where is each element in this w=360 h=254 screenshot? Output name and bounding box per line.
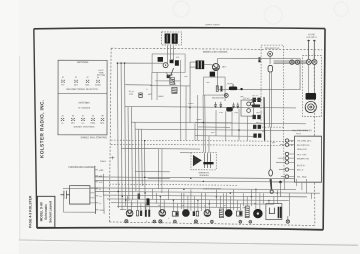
IF can stack 1 <box>251 98 262 102</box>
mid horizontal y148 <box>121 148 200 153</box>
antenna transformer core 2 <box>172 33 178 43</box>
svg-text:ANTENNA: ANTENNA <box>77 61 89 64</box>
svg-text:BROWN +90: BROWN +90 <box>297 158 310 160</box>
tuner coupling blocks <box>170 60 174 64</box>
RF transformer black <box>196 61 205 70</box>
frame border top <box>34 27 325 29</box>
pickup cone <box>193 155 202 166</box>
svg-text:27: 27 <box>62 77 64 79</box>
small trimmer <box>139 93 142 97</box>
svg-text:50,000: 50,000 <box>227 83 233 85</box>
condenser cap symbol <box>60 191 69 199</box>
hatched choke <box>219 209 223 218</box>
svg-text:1ST A.F.: 1ST A.F. <box>243 97 251 100</box>
power pack U <box>269 208 274 214</box>
resistor a <box>216 86 218 92</box>
tuner wires <box>150 60 190 140</box>
speaker plug dashed box <box>261 45 284 127</box>
svg-text:SINGLE DIAL CONTROL: SINGLE DIAL CONTROL <box>80 136 108 139</box>
inner dashed vertical extension <box>283 127 286 182</box>
tube V3 dark <box>182 210 189 217</box>
plug circle <box>268 52 273 57</box>
svg-text:COND.: COND. <box>95 84 102 86</box>
svg-text:27: 27 <box>82 115 84 117</box>
svg-text:DET.: DET. <box>74 84 79 86</box>
small block left of hatch <box>167 75 171 78</box>
svg-text:45: 45 <box>224 205 226 207</box>
terminal legend box <box>294 136 321 182</box>
chassis dashed enclosure <box>109 48 322 225</box>
chart divider <box>58 92 107 94</box>
variable condenser arrow <box>171 68 174 76</box>
model label box <box>37 196 55 227</box>
barrel connector <box>268 65 272 72</box>
phono pickup dashed box <box>191 152 216 170</box>
speaker dashed box <box>303 56 322 117</box>
plug junction squares <box>258 57 260 59</box>
legend leads <box>289 141 295 177</box>
legend terminal circles <box>285 139 288 178</box>
fuse lead <box>270 127 272 169</box>
dial cord diagonal <box>166 72 176 84</box>
ground symbol c <box>194 220 197 223</box>
tube V4 <box>204 210 211 217</box>
svg-text:+45: +45 <box>99 182 102 184</box>
pilot cone <box>270 179 273 190</box>
wire horizontals upper <box>117 63 308 131</box>
A-line wires <box>309 40 315 59</box>
svg-text:JOHN F. RIDER: JOHN F. RIDER <box>205 24 220 26</box>
svg-text:SW: SW <box>272 142 275 144</box>
speaker feed wires <box>309 65 315 93</box>
power pack box <box>266 204 282 220</box>
legend feed stubs <box>276 145 285 177</box>
plug down leads <box>269 57 271 127</box>
svg-text:45: 45 <box>92 115 94 117</box>
svg-text:PWR.: PWR. <box>91 123 96 125</box>
svg-text:CABLE: CABLE <box>100 160 107 163</box>
svg-text:R.F.: R.F. <box>61 84 65 86</box>
svg-text:REC.: REC. <box>100 123 105 125</box>
resistor b <box>220 86 222 92</box>
tuning condenser block <box>158 57 163 62</box>
IF can stack 3 <box>253 125 261 129</box>
socket voltage chart box <box>58 60 107 135</box>
IF unit large box <box>218 59 301 90</box>
ground symbol right <box>286 216 289 223</box>
extra ground symbols row <box>153 220 252 223</box>
svg-text:MILLIAMP SIGNAL SELECTOR: MILLIAMP SIGNAL SELECTOR <box>67 88 99 91</box>
svg-text:MODEL D-90 CHASSIS: MODEL D-90 CHASSIS <box>203 51 228 54</box>
svg-text:24: 24 <box>97 77 99 79</box>
svg-text:YEL-GRN. DET.: YEL-GRN. DET. <box>297 141 312 143</box>
svg-text:DET.: DET. <box>71 123 76 125</box>
mid vertical pair x158-162 <box>158 148 162 193</box>
IF can stack 2 <box>253 115 261 119</box>
svg-text:BLK-RED R.F.: BLK-RED R.F. <box>297 145 310 147</box>
svg-text:24: 24 <box>158 205 160 207</box>
svg-text:+180: +180 <box>99 170 103 172</box>
tuner assembly outline <box>152 54 185 73</box>
detector inner box <box>204 77 226 95</box>
condenser lower leads <box>63 199 95 212</box>
lower segmented condenser <box>172 87 177 93</box>
svg-text:SPEAKER PLUG: SPEAKER PLUG <box>265 47 280 50</box>
svg-text:24: 24 <box>72 115 74 117</box>
cable terminal circles <box>290 60 294 64</box>
heavy wire <box>263 97 266 141</box>
svg-text:2ND I.F.: 2ND I.F. <box>256 112 263 114</box>
page left edge <box>18 56 21 240</box>
socket symbols row 2 <box>61 115 105 124</box>
svg-text:FIELD: FIELD <box>296 133 302 135</box>
svg-text:KOLSTER SPEAKER: KOLSTER SPEAKER <box>292 129 312 132</box>
svg-text:SOCKET VOLTAGES: SOCKET VOLTAGES <box>73 125 95 128</box>
condenser block <box>70 186 90 204</box>
junction dot <box>240 88 242 90</box>
frame border right <box>323 29 325 230</box>
svg-text:+90: +90 <box>99 176 102 178</box>
svg-text:10W: 10W <box>242 207 246 209</box>
svg-text:MAGNETIC: MAGNETIC <box>199 171 210 174</box>
svg-text:P.U.: P.U. <box>262 131 266 133</box>
mid horizontal y171 <box>135 171 170 178</box>
mid dashed line A <box>111 140 316 141</box>
svg-text:TR 1A: TR 1A <box>129 90 135 93</box>
mid horizontal wires <box>195 122 255 136</box>
field coil <box>245 206 249 218</box>
RF transformer leads <box>190 62 212 107</box>
punch hole <box>334 2 348 16</box>
svg-text:Schematic: Schematic <box>44 204 48 220</box>
audio sub-chassis dashed line <box>109 184 238 185</box>
svg-text:Socket Layout: Socket Layout <box>48 200 52 223</box>
svg-text:YEL. GND.: YEL. GND. <box>297 177 307 179</box>
svg-text:2 MEG: 2 MEG <box>188 103 194 105</box>
antenna transformer slit <box>170 34 171 43</box>
antenna transformer dashed can <box>162 32 182 45</box>
grid cap blob <box>210 72 215 77</box>
svg-text:GND: GND <box>99 210 104 212</box>
svg-text:ANTENNA: ANTENNA <box>78 101 90 104</box>
tube V5 dark <box>225 210 232 217</box>
svg-text:27: 27 <box>131 204 133 206</box>
meter circle <box>224 93 228 97</box>
svg-text:27: 27 <box>75 77 77 79</box>
punch hole <box>173 1 189 17</box>
svg-text:27: 27 <box>87 77 89 79</box>
svg-text:I.F. STAGES: I.F. STAGES <box>78 107 91 110</box>
svg-text:.00025: .00025 <box>158 96 164 98</box>
rectifier tube V6 <box>254 209 263 218</box>
tube V1 <box>126 210 133 217</box>
hatched condenser <box>170 77 175 84</box>
svg-text:80: 80 <box>254 203 256 205</box>
svg-text:.001: .001 <box>206 82 210 84</box>
wire bus bottom horizontals <box>90 177 320 210</box>
antenna lead wires <box>168 45 174 63</box>
small choke <box>137 194 140 200</box>
battery terminal riser <box>94 166 97 214</box>
svg-text:OSC.: OSC. <box>85 84 90 86</box>
junction dot B <box>279 181 282 184</box>
prong circle 2 <box>312 59 317 64</box>
tuner dial circle <box>163 63 168 68</box>
svg-text:PAGE 4-3 KOLSTER: PAGE 4-3 KOLSTER <box>28 195 32 228</box>
junction dots <box>117 177 278 205</box>
second riser <box>102 174 105 214</box>
coupling box <box>172 212 178 217</box>
electrolytic above <box>146 198 149 205</box>
svg-text:BLK. A-: BLK. A- <box>297 169 304 172</box>
small parts cluster <box>193 211 195 216</box>
svg-text:.1: .1 <box>168 218 170 220</box>
power transformer bars <box>278 207 280 218</box>
detector tube circle <box>212 64 219 71</box>
condenser feed wires <box>90 188 95 203</box>
svg-text:SPEAKER: SPEAKER <box>199 174 209 177</box>
socket symbols row 1 <box>61 77 101 86</box>
top rail junction dots <box>117 62 240 141</box>
svg-text:DET.: DET. <box>222 67 227 69</box>
antenna transformer core 1 <box>165 33 171 43</box>
page bottom edge <box>19 240 358 245</box>
output parts <box>236 211 242 216</box>
scattered tiny value labels <box>131 57 302 223</box>
svg-text:A-LINE: A-LINE <box>308 33 315 36</box>
svg-text:.006: .006 <box>240 96 244 98</box>
wire bus left verticals <box>117 63 145 210</box>
svg-text:MODEL D-90: MODEL D-90 <box>39 202 43 221</box>
tube drop wires <box>128 189 274 211</box>
mid dashed line B <box>111 144 316 145</box>
volume pot <box>229 86 237 90</box>
svg-text:24: 24 <box>182 205 184 207</box>
svg-text:1ST I.F.: 1ST I.F. <box>252 95 259 97</box>
legend rows <box>297 141 312 179</box>
svg-text:80: 80 <box>101 115 103 117</box>
prong circle 1 <box>306 59 311 64</box>
speaker cable wires <box>274 61 307 63</box>
svg-text:GRN. OSC.: GRN. OSC. <box>297 149 308 151</box>
speaker field blob <box>306 93 317 100</box>
ground symbol b <box>159 220 162 223</box>
mid vertical wires <box>190 95 247 152</box>
resistor pair <box>136 211 138 216</box>
IF can stack 4 <box>253 134 261 138</box>
terminal ticks <box>95 170 99 210</box>
fuse body <box>269 170 273 176</box>
svg-text:.5: .5 <box>146 89 148 91</box>
frame border left <box>34 29 38 228</box>
ground symbol a <box>125 220 128 223</box>
svg-text:KOLSTER RADIO, INC.: KOLSTER RADIO, INC. <box>39 99 45 158</box>
pickup coil bars <box>204 153 210 168</box>
svg-text:.5 MFD: .5 MFD <box>196 119 203 121</box>
frame border bottom <box>37 228 323 230</box>
filter caps <box>145 210 147 217</box>
extra wire stubs <box>63 178 312 216</box>
tone pot blob <box>226 107 233 111</box>
svg-text:(110-120 V.): (110-120 V.) <box>307 37 318 39</box>
svg-text:CONDENSER ASSEMBLY: CONDENSER ASSEMBLY <box>68 166 96 169</box>
AF transformer box <box>241 100 254 116</box>
tube V2 <box>159 210 166 217</box>
svg-text:500,000 OHM: 500,000 OHM <box>212 98 224 100</box>
pickup magnet bar <box>203 162 213 164</box>
terminal labels <box>99 170 104 212</box>
tick cross mark <box>111 156 114 159</box>
svg-text:27: 27 <box>204 205 206 207</box>
svg-text:A.F.: A.F. <box>81 122 85 125</box>
punch hole <box>264 6 282 24</box>
svg-text:RED +180: RED +180 <box>297 154 307 156</box>
svg-text:24: 24 <box>61 115 63 117</box>
AF terminal circles <box>247 102 251 106</box>
speaker cone spiral <box>305 101 316 112</box>
bypass cap symbols <box>214 102 239 108</box>
svg-text:BLUE A+: BLUE A+ <box>297 164 306 167</box>
